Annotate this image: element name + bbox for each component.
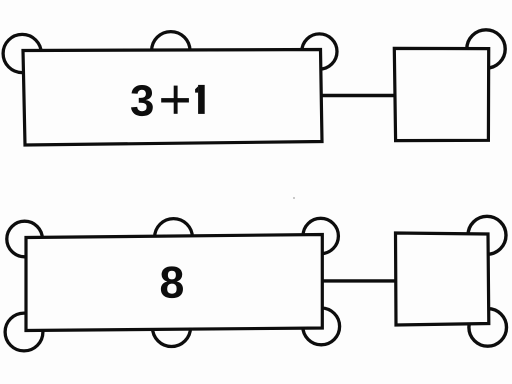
mount circle top-right of small box 2: [468, 216, 506, 254]
label 3+1 : digit 1 stem: [198, 85, 205, 114]
wire connecting relay 8 to small box 2: [321, 279, 397, 282]
mount circle top-right of small box 1: [467, 30, 505, 68]
relay block 3+1: [23, 50, 322, 146]
relay block 8: [26, 235, 322, 331]
mount circle top-left of relay 8: [7, 221, 43, 257]
mount circle top-right of relay 3+1: [302, 34, 337, 69]
mount circle bottom-right of small box 2: [469, 309, 507, 347]
label 3+1 : digit 3: [131, 85, 153, 116]
small box 2: [396, 233, 489, 325]
mount circle top-left of relay 3+1: [3, 34, 41, 72]
wire connecting relay 3+1 to small box 1: [320, 94, 396, 98]
small box 1: [394, 48, 488, 140]
mount circle top-middle of relay 8: [155, 219, 193, 257]
mount circle top-right of relay 8: [303, 218, 338, 253]
label 3+1 : digit 1 flag: [195, 86, 198, 92]
dust speck: [293, 197, 295, 199]
mount circle bottom-right of relay 8: [303, 308, 340, 345]
label 8: [161, 266, 183, 298]
label 3+1 : plus sign vertical bar: [174, 86, 178, 114]
label 3+1 : plus sign horizontal bar: [161, 98, 189, 102]
mount circle bottom-left of relay 8: [5, 313, 43, 351]
mount circle bottom-middle of relay 8: [153, 309, 191, 347]
mount circle top-middle of relay 3+1: [152, 32, 190, 70]
